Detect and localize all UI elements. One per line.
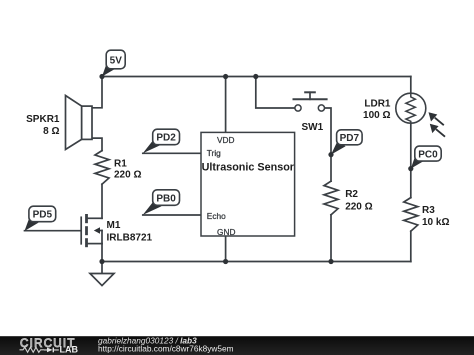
svg-text:PD7: PD7 [340, 133, 360, 144]
flag PD7 [331, 130, 362, 155]
resistor R1 body [95, 151, 109, 185]
photoresistor LDR1 arrows [429, 112, 446, 137]
switch SW1 [294, 92, 327, 111]
svg-text:SPKR1: SPKR1 [26, 114, 60, 125]
wire Echo from PB0 [143, 214, 201, 216]
svg-text:Trig: Trig [207, 148, 221, 158]
wire SW1 right to R2 [325, 108, 331, 181]
node B junction VDD [223, 74, 228, 79]
photoresistor LDR1 [396, 93, 426, 123]
node H junction R2 bottom [328, 259, 333, 264]
svg-text:M1: M1 [107, 220, 121, 231]
svg-text:LAB: LAB [60, 344, 79, 354]
svg-text:8 Ω: 8 Ω [43, 126, 59, 137]
svg-text:http://circuitlab.com/c8wr76k8: http://circuitlab.com/c8wr76k8yw5em [98, 343, 234, 353]
node A junction 5V [99, 74, 104, 79]
svg-text:5V: 5V [110, 55, 123, 66]
svg-text:SW1: SW1 [302, 122, 324, 133]
transistor M1 MOSFET [81, 214, 102, 247]
footer logo zigzag resistor [20, 347, 45, 352]
speaker SPKR1 symbol [66, 96, 93, 150]
wire gate from PD5 [25, 230, 81, 232]
wire bottom rail [102, 261, 411, 263]
wire sensor GND to bottom rail [225, 236, 227, 262]
svg-text:PD5: PD5 [33, 210, 53, 221]
svg-text:220 Ω: 220 Ω [345, 202, 372, 213]
svg-text:10 kΩ: 10 kΩ [422, 217, 449, 228]
wire LDR bottom to R3 [410, 123, 412, 197]
svg-text:R2: R2 [345, 189, 358, 200]
node E junction PC0 [408, 166, 413, 171]
node C junction SW branch [253, 74, 258, 79]
wire speaker bottom to R1 [92, 138, 102, 151]
svg-text:Echo: Echo [207, 211, 226, 221]
svg-text:R1: R1 [114, 158, 127, 169]
wire R2 bottom to rail [330, 215, 332, 262]
svg-text:LDR1: LDR1 [364, 98, 391, 109]
svg-text:Ultrasonic Sensor: Ultrasonic Sensor [202, 162, 295, 174]
flag PD2 [143, 129, 180, 153]
svg-text:100 Ω: 100 Ω [363, 110, 390, 121]
wire R1 to MOSFET drain [101, 184, 103, 218]
ground [90, 274, 114, 286]
svg-text:VDD: VDD [217, 135, 235, 145]
node G junction GND pin [223, 259, 228, 264]
resistor R2 body [324, 181, 338, 215]
svg-text:GND: GND [217, 227, 235, 237]
flag PD5 [25, 206, 56, 231]
wire MOSFET source to ground [101, 244, 103, 274]
svg-text:R3: R3 [422, 205, 435, 216]
wire Trig from PD2 [143, 152, 201, 154]
svg-text:PD2: PD2 [156, 133, 176, 144]
wire top rail 5V [102, 76, 411, 78]
node F junction source-rail [99, 259, 104, 264]
flag PB0 [143, 190, 180, 215]
wire LDR branch down [410, 77, 412, 94]
wire R3 bottom to rail [410, 231, 412, 261]
svg-text:PC0: PC0 [418, 149, 438, 160]
flag 5V [102, 50, 125, 76]
svg-text:PB0: PB0 [156, 193, 176, 204]
wire speaker top terminal [92, 77, 102, 108]
wire SW1 branch from rail [256, 77, 295, 109]
wire VDD branch [225, 77, 227, 133]
svg-text:220 Ω: 220 Ω [114, 170, 141, 181]
ultrasonic sensor module U1 box [201, 132, 295, 236]
svg-text:IRLB8721: IRLB8721 [107, 233, 153, 244]
flag PC0 [411, 146, 441, 169]
resistor R3 body [404, 198, 418, 232]
node D junction PD7 [328, 152, 333, 157]
footer bar [0, 336, 474, 355]
footer logo diode [44, 348, 59, 353]
